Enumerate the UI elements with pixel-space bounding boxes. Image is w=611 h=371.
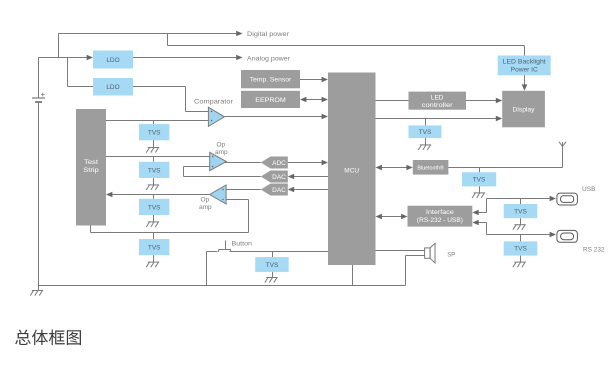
wire EEPROM to MCU (bidirectional): [300, 97, 328, 103]
wire USB to interface: [472, 196, 556, 216]
svg-text:TVS: TVS: [419, 129, 432, 136]
TVS D6: [409, 119, 442, 139]
svg-text:TVS: TVS: [148, 167, 161, 174]
wire LED backlight to display: [522, 75, 528, 91]
wire MCU to speaker: [376, 250, 425, 252]
svg-text:LDO: LDO: [106, 57, 119, 64]
wire ADC to MCU: [288, 160, 328, 166]
Temp. Sensor U7: [241, 70, 300, 88]
wire branch to LED backlight power IC: [168, 34, 525, 56]
op-amp U4: [210, 152, 227, 170]
TVS D4: [139, 233, 170, 256]
speaker SP1: [425, 243, 435, 263]
TVS D1: [139, 121, 170, 141]
svg-text:LDO: LDO: [106, 84, 119, 91]
ground (TVS D5): [265, 272, 278, 283]
svg-text:TVS: TVS: [473, 177, 486, 184]
svg-text:ADC: ADC: [272, 160, 286, 167]
wire op-amp2 to test strip: [106, 192, 210, 198]
TVS D3: [139, 195, 170, 216]
Bluetooth module U12: [413, 160, 449, 175]
TVS D2: [139, 157, 170, 179]
wire op-amp1 to ADC: [225, 162, 261, 164]
wire DAC1 to op-amp1 inverting input: [184, 167, 261, 177]
wire speaker return to ground bus: [406, 256, 425, 286]
svg-text:USB: USB: [582, 186, 596, 193]
wire temp sensor to MCU: [300, 77, 328, 83]
Test Strip block: [76, 109, 106, 226]
battery B1: [32, 58, 45, 286]
ground (bottom left rail): [30, 286, 43, 296]
wire digital power rail: [59, 31, 243, 58]
ground (TVS D4): [146, 255, 159, 267]
LED controller U10: [409, 92, 467, 110]
svg-text:Bluetooth®: Bluetooth®: [417, 164, 444, 171]
wire test strip feedback to op-amp2: [91, 200, 249, 233]
svg-text:(RS-232 - USB): (RS-232 - USB): [417, 217, 463, 224]
LDO U2 (reference): [93, 78, 133, 96]
LED Backlight Power IC U9: [498, 56, 551, 76]
svg-text:Power IC: Power IC: [511, 67, 538, 74]
svg-text:DAC: DAC: [272, 187, 286, 194]
svg-text:TVS: TVS: [148, 130, 161, 137]
TVS D5: [255, 252, 289, 272]
title 总体框图 (vector outlines): [15, 329, 81, 345]
svg-text:Strip: Strip: [83, 167, 99, 174]
svg-text:Digital power: Digital power: [247, 31, 290, 38]
svg-text:SP: SP: [447, 252, 455, 259]
svg-text:EEPROM: EEPROM: [255, 97, 286, 104]
wire MCU to ground bus: [352, 265, 354, 286]
wire MCU to bluetooth (bidirectional): [376, 165, 413, 171]
connector USB J1: [557, 193, 578, 205]
MCU U6: [328, 73, 376, 266]
wire MCU to DAC1: [288, 174, 328, 180]
DAC2 block: [261, 184, 288, 196]
svg-text:RS 232: RS 232: [583, 247, 605, 254]
wire test strip to op-amp1: [106, 156, 210, 158]
LDO U1 (analog power): [93, 51, 133, 69]
svg-text:DAC: DAC: [272, 174, 286, 181]
svg-text:Test: Test: [84, 159, 98, 166]
ground (TVS D7): [472, 186, 485, 198]
EEPROM U8: [241, 91, 300, 108]
ground (TVS D9): [513, 256, 526, 268]
op-amp U5 label: [199, 197, 212, 212]
TVS D9: [504, 235, 538, 256]
DAC1 block: [261, 171, 288, 183]
svg-text:Comparator: Comparator: [194, 99, 234, 106]
svg-text:Button: Button: [232, 241, 253, 248]
svg-text:TVS: TVS: [514, 246, 527, 253]
wire MCU to LED controller: [376, 100, 409, 102]
wire LDO2 to comparator: [133, 87, 208, 112]
wire button branch: [207, 252, 218, 286]
wire MCU to DAC2: [288, 187, 328, 193]
Display U11: [502, 91, 545, 128]
svg-text:Op: Op: [201, 197, 210, 204]
svg-text:Op: Op: [217, 142, 226, 149]
svg-text:amp: amp: [199, 204, 212, 211]
svg-text:TVS: TVS: [148, 245, 161, 252]
wire MCU to interface (bidirectional): [376, 214, 408, 220]
wire comparator to MCU: [224, 114, 328, 120]
wire RS-232 to interface: [472, 220, 556, 238]
ground (TVS D8): [513, 218, 526, 230]
op-amp U5: [210, 185, 227, 204]
comparator U3: [208, 107, 224, 126]
ground (TVS D6): [418, 138, 431, 150]
ADC block: [261, 157, 288, 169]
ground (TVS D3): [146, 215, 159, 227]
TVS D8: [504, 199, 538, 219]
svg-text:TVS: TVS: [148, 204, 161, 211]
antenna AN1: [559, 142, 566, 147]
svg-text:LED: LED: [431, 94, 444, 101]
svg-text:TVS: TVS: [514, 208, 527, 215]
TVS D7: [462, 168, 496, 187]
wire analog power: [133, 55, 243, 61]
wire battery to LDO2: [68, 58, 94, 87]
button S1: [219, 241, 231, 253]
svg-text:Display: Display: [513, 107, 536, 114]
wire MCU to display: [376, 116, 503, 122]
op-amp U4 label: [215, 142, 228, 157]
svg-text:LED Backlight: LED Backlight: [503, 59, 546, 66]
svg-text:Analog power: Analog power: [247, 56, 291, 63]
wire LED controller to display: [466, 98, 502, 104]
wire test strip to comparator input: [106, 120, 208, 122]
ground (TVS D2): [146, 178, 159, 190]
wire button to MCU: [230, 251, 329, 253]
wire battery to LDO1: [39, 55, 94, 61]
connector RS-232 J2: [557, 230, 578, 242]
ground (TVS D1): [146, 140, 159, 152]
svg-text:amp: amp: [215, 149, 228, 156]
svg-text:TVS: TVS: [266, 262, 279, 269]
svg-text:MCU: MCU: [344, 168, 359, 175]
wire ground bus: [39, 285, 406, 287]
Interface (RS-232 - USB) U13: [408, 206, 473, 227]
svg-text:Temp. Sensor: Temp. Sensor: [250, 77, 292, 84]
svg-text:Interface: Interface: [426, 209, 455, 216]
wire DAC2 to op-amp2: [226, 189, 261, 191]
svg-text:controller: controller: [422, 102, 454, 109]
wire bluetooth to antenna: [448, 142, 562, 168]
